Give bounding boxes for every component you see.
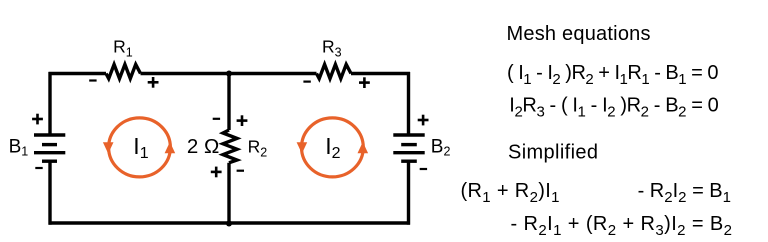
svg-text:I2: I2	[325, 133, 340, 162]
polarity plus right of R3	[359, 77, 370, 88]
resistor R1	[106, 64, 141, 78]
wire middle lower	[227, 163, 230, 225]
wire middle upper	[227, 72, 230, 130]
polarity minus top-left of R2	[213, 118, 220, 120]
polarity minus left of R1	[89, 79, 96, 81]
wire bottom	[49, 221, 411, 224]
resistor R3	[317, 64, 352, 78]
polarity plus bottom-left of R2	[211, 167, 222, 178]
wire left side lower	[48, 161, 51, 225]
mesh current I2 right arrowhead (up)	[358, 142, 369, 153]
mesh current I2 circle	[302, 118, 364, 177]
polarity plus top of B2	[418, 115, 429, 126]
svg-text:B1: B1	[9, 137, 29, 159]
polarity minus bottom of B2	[420, 168, 427, 170]
wire right side upper	[407, 72, 410, 135]
svg-text:( I1 - I2 )R2 + I1R1 - B1 = 0: ( I1 - I2 )R2 + I1R1 - B1 = 0	[507, 62, 719, 88]
mesh current I1 right arrowhead (up)	[165, 142, 176, 153]
svg-text:2 Ω: 2 Ω	[187, 135, 219, 158]
polarity minus bottom of B1	[35, 167, 42, 169]
svg-text:- R2I1 + (R2 + R3)I2 = B2: - R2I1 + (R2 + R3)I2 = B2	[511, 213, 733, 239]
polarity plus right of R1	[148, 77, 159, 88]
mesh current I1 left arrowhead (down)	[103, 142, 114, 153]
wire top-middle segment	[141, 72, 317, 75]
svg-text:Mesh equations: Mesh equations	[507, 23, 651, 45]
wire right side lower	[407, 161, 410, 225]
svg-text:- R2I2 = B1: - R2I2 = B1	[638, 180, 731, 206]
polarity minus bottom-right of R2	[237, 170, 244, 172]
svg-text:R2: R2	[248, 137, 268, 160]
polarity plus top of B1	[32, 114, 43, 125]
resistor R2	[223, 130, 237, 163]
mesh current I1 circle	[109, 118, 171, 177]
mesh current I2 left arrowhead (down)	[297, 142, 308, 153]
svg-text:I2R3 - ( I1 - I2 )R2 - B2 = 0: I2R3 - ( I1 - I2 )R2 - B2 = 0	[509, 95, 719, 121]
wire left side upper	[48, 72, 51, 135]
svg-text:Simplified: Simplified	[508, 142, 598, 164]
battery B1	[34, 133, 65, 136]
svg-text:I1: I1	[133, 133, 148, 162]
wire top-right segment	[351, 72, 410, 75]
node B bottom junction dot	[226, 221, 232, 227]
svg-text:(R1 + R2)I1: (R1 + R2)I1	[461, 180, 560, 206]
svg-text:R1: R1	[113, 37, 133, 60]
node A top junction dot	[226, 71, 232, 77]
polarity minus left of R3	[303, 81, 310, 83]
svg-text:B2: B2	[431, 137, 451, 159]
battery B2	[393, 133, 424, 136]
wire top-left segment	[49, 72, 107, 75]
polarity plus top-right of R2	[237, 115, 248, 126]
svg-text:R3: R3	[322, 37, 342, 60]
